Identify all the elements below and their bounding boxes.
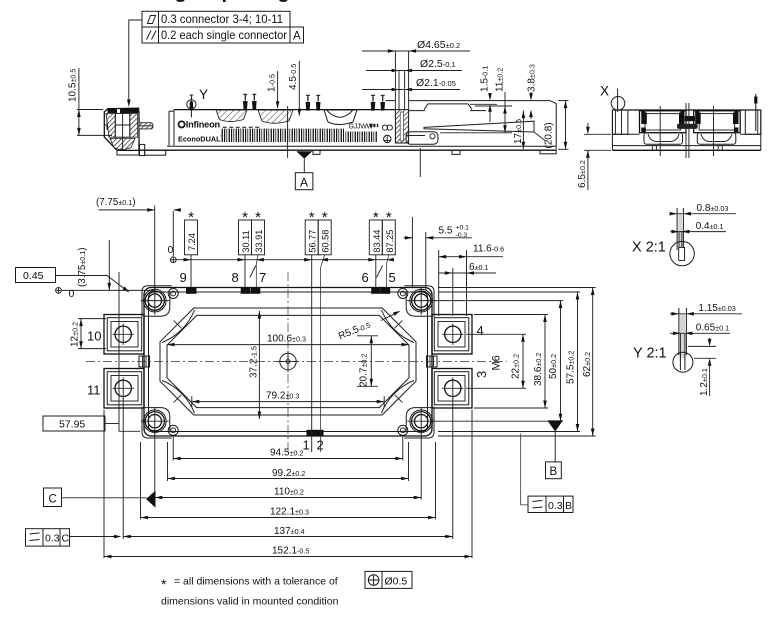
svg-text:Ø0.5: Ø0.5: [385, 575, 408, 587]
svg-text:4.5-0.5: 4.5-0.5: [288, 64, 299, 90]
front view left wall: [168, 111, 170, 145]
chamfer ticks: [174, 320, 182, 328]
dim 17±0.5: [513, 111, 525, 150]
dim 1.2±0.1: [688, 345, 716, 347]
svg-text:Ø4.65±0.2: Ø4.65±0.2: [417, 39, 460, 51]
pin recess tray 3: [324, 110, 357, 125]
dim 1-0.5: [267, 71, 280, 109]
boxed basic dim 7.24: [185, 209, 198, 255]
connector block right: [694, 111, 741, 133]
svg-text:*: *: [242, 209, 248, 226]
svg-text:10: 10: [87, 329, 101, 344]
front view raised cap top edge: [409, 101, 557, 150]
svg-text:33.91: 33.91: [254, 230, 264, 253]
mounting hole TR: [407, 287, 435, 315]
svg-text:*: *: [255, 209, 261, 226]
leader from frame to clamp block: [129, 20, 142, 100]
svg-text:6.5±0.2: 6.5±0.2: [577, 160, 588, 188]
svg-text:*: *: [188, 209, 194, 226]
tab 4: [432, 315, 472, 355]
svg-text:56.77: 56.77: [308, 230, 318, 253]
detail X tip circle: [670, 241, 694, 265]
dim Ø2.1-0.05: [362, 77, 460, 91]
dim Ø4.65±0.2: [362, 39, 470, 110]
mounting hole BL: [141, 407, 169, 435]
svg-text:+0.1: +0.1: [456, 225, 470, 232]
screw hole BL: [168, 425, 178, 435]
dim 10.5±0.5 left: [68, 68, 113, 135]
plan body outline: [144, 288, 432, 437]
extension below right block: [419, 148, 421, 177]
svg-text:30.11: 30.11: [241, 230, 251, 252]
terminal pads top (9,8,7,6,5): [186, 288, 197, 294]
svg-text:= all dimensions with a tolera: = all dimensions with a tolerance of: [174, 576, 338, 588]
side latch left: [139, 356, 150, 367]
svg-text:*: *: [309, 209, 315, 226]
extension lines up from right corner/tab: [425, 232, 427, 290]
tolerance box: [365, 571, 412, 588]
side view right pin: [755, 94, 757, 131]
side latch right: [427, 356, 438, 367]
dim 12±0.2 left of tab 10: [70, 319, 107, 349]
dim 11±0.2: [440, 68, 512, 133]
side view left shoulder: [612, 110, 639, 134]
bottom extension lines: [103, 410, 105, 558]
pin recess tray hatched 2: [258, 110, 293, 123]
sectioned press-fit pin (hatched): [395, 110, 408, 143]
side view right shoulder: [740, 110, 761, 134]
svg-text:A: A: [300, 175, 308, 189]
dim 152.1-0.5: [104, 545, 472, 558]
inner recess octagon inner: [167, 315, 409, 407]
clamp lower skirt: [117, 150, 139, 155]
svg-text:X 2:1: X 2:1: [632, 240, 666, 256]
svg-text:g: g: [278, 0, 290, 3]
flange notches: [652, 146, 656, 151]
corner relief arcs: [162, 310, 195, 343]
clamp nub: [139, 123, 153, 129]
aux lever arm: [424, 121, 534, 132]
svg-text:g: g: [175, 0, 187, 3]
svg-text:62±0.2: 62±0.2: [582, 352, 593, 377]
svg-text:10.5±0.5: 10.5±0.5: [68, 69, 79, 102]
svg-text:5.5: 5.5: [439, 226, 453, 237]
svg-text:0.8±0.03: 0.8±0.03: [697, 203, 729, 214]
dim 122.1±0.3: [141, 507, 436, 520]
svg-text:*: *: [373, 209, 379, 226]
svg-text:1.15±0.03: 1.15±0.03: [698, 303, 735, 314]
svg-text:1: 1: [303, 438, 310, 453]
svg-text:122.1±0.3: 122.1±0.3: [270, 507, 309, 518]
Infineon logo: [179, 120, 221, 130]
svg-text:X: X: [600, 84, 609, 99]
screw hole TL: [168, 289, 178, 299]
dim 37.2-1.5: [249, 311, 262, 419]
dim 38.6±0.2: [533, 315, 547, 409]
detail Y pin shaft: [680, 314, 685, 358]
side view centerlines: [659, 106, 661, 156]
svg-text:79.2±0.3: 79.2±0.3: [266, 391, 299, 402]
corner pad BL: [142, 407, 172, 438]
dim 6±0.1: [439, 262, 496, 275]
svg-text:(3.75±0.1): (3.75±0.1): [77, 247, 88, 287]
tab 10: [104, 315, 144, 355]
svg-text:-0.3: -0.3: [456, 232, 468, 239]
svg-text:B: B: [565, 500, 572, 512]
svg-text:100.6±0.3: 100.6±0.3: [267, 334, 306, 345]
dim 110±0.2: [155, 487, 421, 500]
side view outline: [612, 110, 760, 150]
svg-text:57.95: 57.95: [59, 419, 85, 431]
approval marks: [382, 125, 387, 130]
boxed basic dim 33.91: [252, 209, 265, 255]
svg-text:Y: Y: [199, 87, 208, 102]
svg-text:*: *: [161, 576, 167, 592]
dim 1.5-0.1: [470, 66, 497, 122]
dim 50±0.2: [548, 301, 562, 422]
svg-text:*: *: [322, 209, 328, 226]
dim 5.5 +0.1-0.3: [404, 217, 473, 287]
feature frame 0.3 B: [521, 434, 573, 513]
dim 94.5±0.2: [173, 447, 403, 460]
datum C triangle: [146, 491, 156, 508]
dim 100.6±0.3: [167, 334, 409, 347]
baseplate left foot: [140, 144, 145, 155]
section/datum A mark: [287, 106, 289, 158]
dim 1.15±0.03: [670, 313, 742, 315]
svg-text:Infineon: Infineon: [186, 120, 221, 130]
boxed basic dim 87.25: [382, 209, 395, 255]
dim 79.2±0.3: [192, 391, 384, 408]
svg-text:EconoDUALTM: EconoDUALTM: [178, 134, 228, 143]
svg-text:1.2±0.1: 1.2±0.1: [699, 368, 710, 396]
svg-text:0: 0: [168, 244, 174, 256]
front view body top edge: [174, 109, 395, 111]
svg-text:152.1-0.5: 152.1-0.5: [272, 545, 309, 556]
svg-text:6±0.1: 6±0.1: [469, 262, 489, 273]
svg-text:8: 8: [232, 270, 239, 285]
lower trays side view: [644, 133, 683, 145]
svg-text:(7.75±0.1): (7.75±0.1): [96, 197, 136, 208]
mounting hole TL: [141, 287, 169, 315]
corner pad BR: [404, 407, 434, 438]
svg-text:0.4±0.1: 0.4±0.1: [696, 221, 724, 232]
feature control frame row1: flatness 0.3 connector 3-4; 10-11: [142, 11, 290, 27]
boxed dim 57.95: [43, 272, 140, 431]
corner pad TR: [404, 286, 434, 317]
right foot bracket: [406, 132, 438, 144]
svg-text:0: 0: [69, 288, 75, 300]
boxed dim 0.45: [16, 268, 131, 294]
feature control frame row2: parallelism 0.2 each single connector A: [142, 27, 304, 43]
svg-text:M6: M6: [491, 355, 503, 370]
svg-text:Ø2.1-0.05: Ø2.1-0.05: [416, 77, 456, 89]
dim 0.4±0.1: [670, 231, 726, 233]
svg-text:0.2 each single connector: 0.2 each single connector: [161, 29, 287, 42]
svg-text:38.6±0.2: 38.6±0.2: [533, 353, 544, 386]
detail Y tip circle: [673, 352, 693, 372]
chain extension lines down to pads: [190, 255, 192, 287]
dim 62±0.2: [582, 288, 595, 437]
screw clamp block: [104, 108, 139, 150]
boxed basic dim 30.11: [239, 209, 252, 255]
datum C box: [44, 488, 147, 507]
svg-text:11: 11: [87, 383, 101, 398]
svg-text:0.3: 0.3: [45, 533, 60, 545]
svg-text:17±0.5: 17±0.5: [513, 119, 524, 144]
svg-text:0.65±0.1: 0.65±0.1: [696, 323, 729, 334]
svg-text:Ø2.5-0.1: Ø2.5-0.1: [420, 58, 456, 70]
svg-text:0.45: 0.45: [23, 270, 44, 282]
mounting hole BR: [407, 407, 435, 435]
svg-text:12±0.2: 12±0.2: [70, 322, 81, 347]
dim (7.75±0.1): [96, 197, 181, 289]
dim 99.2±0.2: [168, 468, 409, 480]
boxed basic dim 56.77: [305, 209, 318, 255]
Y pin marker on front view: [190, 95, 192, 118]
corner pad TL: [142, 286, 172, 317]
svg-text:5: 5: [389, 270, 396, 285]
horizontal centerline: [86, 361, 507, 363]
center clip between blocks: [685, 116, 695, 121]
svg-text:94.5±0.2: 94.5±0.2: [270, 447, 303, 458]
baseplate small feet: [313, 150, 320, 154]
svg-text:83.44: 83.44: [372, 230, 382, 253]
svg-text:20.7±0.2: 20.7±0.2: [359, 354, 370, 387]
datum 0 marker top: [168, 244, 394, 263]
dim (20.8): [544, 101, 569, 150]
svg-text:57.5±0.2: 57.5±0.2: [566, 351, 577, 384]
dim 6.5±0.2: [577, 123, 611, 190]
svg-text:1-0.5: 1-0.5: [267, 74, 278, 92]
detail X pin shaft: [678, 214, 682, 248]
datum B box: [546, 462, 562, 479]
X pin marker: [617, 89, 619, 113]
dim 0.8±0.03: [670, 213, 736, 215]
svg-text:Y 2:1: Y 2:1: [633, 346, 667, 362]
front view baseplate: [167, 145, 556, 147]
boxed basic dim 60.58: [318, 209, 331, 255]
dashed line above barcode: [223, 126, 261, 128]
dim 11.6-0.6: [439, 244, 504, 259]
right cap bump: [424, 104, 472, 110]
extension lines right: [466, 333, 526, 335]
dim (3.75±0.1): [77, 240, 111, 290]
svg-text:60.58: 60.58: [321, 230, 331, 253]
datum 0 marker left: [56, 288, 154, 301]
R5.5-0.5 label: [337, 309, 401, 342]
screw hole BR: [398, 425, 408, 435]
terminal pad bottom (1,2): [307, 430, 324, 436]
tab 3: [432, 369, 472, 409]
dim 0.65±0.1: [670, 332, 730, 334]
dim 20.7±0.2: [357, 336, 378, 387]
boxed basic dim 83.44: [369, 209, 382, 255]
dim 3.8±0.3: [527, 64, 538, 119]
datum B triangle: [547, 420, 563, 431]
svg-text:87.25: 87.25: [385, 230, 395, 253]
svg-text:0.3: 0.3: [548, 500, 563, 512]
dim 4.5-0.5: [288, 61, 301, 116]
svg-text:C: C: [62, 533, 70, 545]
inner recess octagon outer: [160, 308, 416, 415]
svg-text:0.3 connector 3-4; 10-11: 0.3 connector 3-4; 10-11: [161, 13, 283, 26]
dim 137±0.4: [123, 526, 453, 538]
svg-text:137±0.4: 137±0.4: [274, 526, 305, 537]
vertical centerline: [287, 272, 289, 452]
svg-text:110±0.2: 110±0.2: [274, 487, 304, 498]
svg-text:50±0.2: 50±0.2: [548, 354, 559, 379]
svg-text:A: A: [293, 30, 301, 43]
dim Ø2.5-0.1: [366, 58, 462, 110]
screw hole TR: [398, 289, 408, 299]
svg-text:3: 3: [474, 371, 489, 378]
svg-text:6: 6: [362, 270, 369, 285]
svg-text:11.6-0.6: 11.6-0.6: [473, 244, 504, 255]
svg-text:B: B: [550, 466, 558, 478]
connector block left: [640, 111, 687, 133]
svg-text:C: C: [49, 493, 57, 505]
svg-text:7: 7: [259, 270, 266, 285]
center hole: [278, 351, 299, 372]
svg-text:37.2-1.5: 37.2-1.5: [249, 346, 260, 378]
svg-text:p: p: [222, 0, 234, 3]
dim 22±0.2: [511, 334, 525, 388]
svg-text:7.24: 7.24: [187, 233, 197, 251]
feature frame 0.3 C: [26, 529, 122, 546]
barcode: [222, 129, 345, 142]
svg-text:3.8±0.3: 3.8±0.3: [527, 64, 538, 92]
svg-text:GJJWW: GJJWW: [349, 123, 374, 130]
tab 11: [104, 369, 144, 409]
svg-text:*: *: [386, 209, 392, 226]
svg-text:99.2±0.2: 99.2±0.2: [272, 468, 305, 479]
svg-text:9: 9: [180, 270, 187, 285]
pin recess tray hatched 1: [216, 110, 247, 122]
svg-text:dimensions valid in mounted co: dimensions valid in mounted condition: [161, 596, 339, 608]
svg-text:11±0.2: 11±0.2: [495, 68, 506, 92]
svg-text:1.5-0.1: 1.5-0.1: [480, 66, 491, 92]
svg-text:22±0.2: 22±0.2: [511, 354, 522, 379]
dim 57.5±0.2: [566, 292, 580, 432]
svg-text:4: 4: [477, 323, 484, 338]
svg-text:(20.8): (20.8): [544, 122, 555, 148]
